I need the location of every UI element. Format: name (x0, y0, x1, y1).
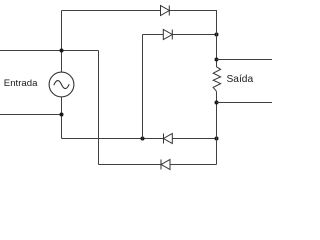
wire top rail (node A to D1 anode) (62, 10, 161, 12)
wire input terminal top (0, 50, 99, 52)
diode D4 (161, 160, 170, 170)
wire right rail upper (top corner to resistor top) (216, 11, 218, 68)
node junction dot output plus (215, 58, 219, 62)
wire crossover vertical x=98 (input top down to bottom rail) (98, 51, 100, 165)
node junction dot row2 / right rail (215, 33, 219, 37)
wire output terminal bottom (217, 102, 273, 104)
node junction dot row3 / x=142 vertical (141, 137, 145, 141)
ac source V1 Entrada (49, 72, 74, 97)
wire row4 right segment (D4 anode to bottom-right corner) (170, 164, 217, 166)
wire right rail lower (resistor bottom to bottom corner) (216, 92, 218, 165)
wire output terminal top (217, 59, 273, 61)
wire input terminal bottom (0, 114, 62, 116)
diode D3 (164, 134, 173, 144)
wire left vertical upper (AC top to top rail) (61, 11, 63, 73)
wire row2 left segment (corner to D2 anode) (143, 34, 164, 36)
wire row4 left segment (crossover corner to D4 cathode) (99, 164, 162, 166)
svg-text:Saída: Saída (227, 74, 254, 85)
node junction dot output minus (215, 101, 219, 105)
resistor R1 Saida (213, 67, 220, 92)
wire left vertical lower (AC bottom down) (61, 97, 63, 139)
wire row3 right segment (D3 anode to right rail) (172, 138, 216, 140)
svg-text:Entrada: Entrada (4, 78, 38, 89)
node junction dot at AC-bottom / input-bottom (60, 113, 64, 117)
wire row3 left segment (AC bottom corner to D3 cathode) (62, 138, 164, 140)
wire vertical x=142 (row2 corner down to row3) (142, 35, 144, 139)
diode D2 (163, 30, 172, 40)
wire D1 cathode to top-right corner (169, 10, 217, 12)
diode D1 (161, 6, 170, 16)
wire row2 right segment (D2 cathode to right rail) (172, 34, 216, 36)
node junction dot at AC-top / input-top (60, 49, 64, 53)
node junction dot row3 / right rail (215, 137, 219, 141)
